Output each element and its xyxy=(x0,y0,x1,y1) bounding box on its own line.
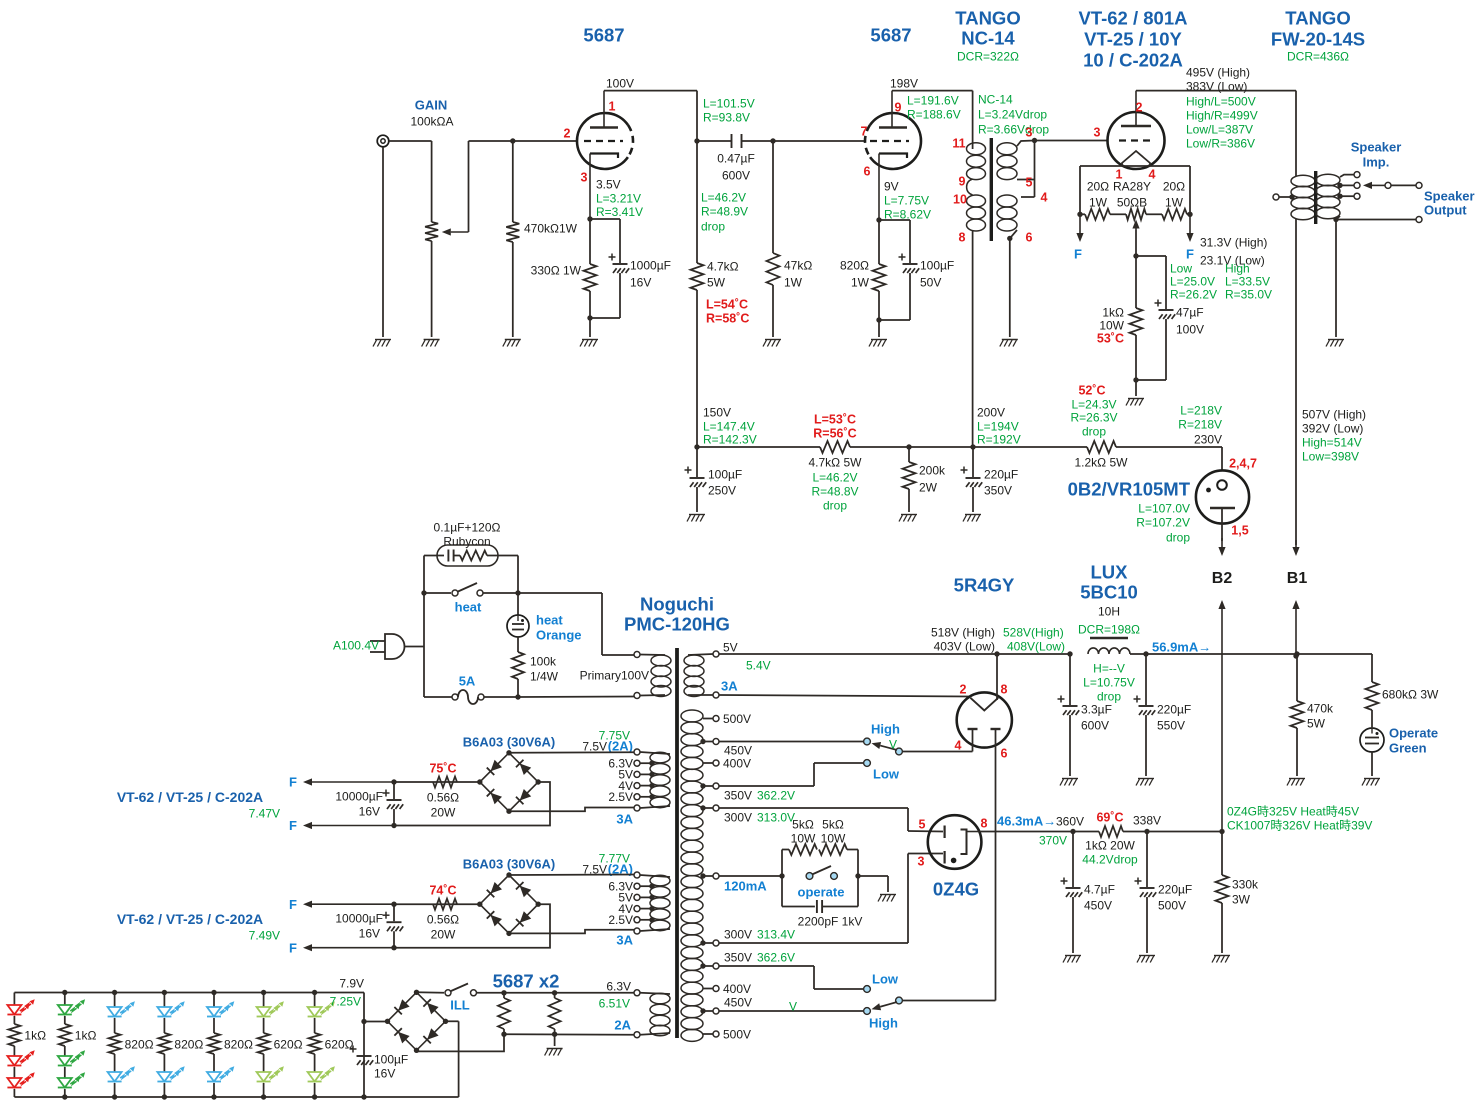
resistor 5687 heater 2 xyxy=(549,998,561,1029)
svg-text:5kΩ: 5kΩ xyxy=(792,817,814,831)
svg-text:6: 6 xyxy=(1001,747,1008,761)
ground 47k xyxy=(765,339,781,341)
svg-text:0.47µF: 0.47µF xyxy=(717,151,755,165)
tap 350V at y786 xyxy=(703,785,713,787)
LED column 1kΩ at x14 xyxy=(13,993,15,1006)
wire pin8 lead xyxy=(996,654,998,700)
wire NC-14 pin5-pin4 link xyxy=(1017,179,1035,181)
svg-text:10W: 10W xyxy=(821,831,846,845)
wire ILL bridge right to bottom bus xyxy=(446,1020,459,1022)
tube U3 plate xyxy=(1121,125,1151,127)
svg-text:Orange: Orange xyxy=(536,628,582,643)
svg-text:4: 4 xyxy=(955,739,962,753)
svg-text:5BC10: 5BC10 xyxy=(1080,582,1138,603)
wire NC-14 pin3 lead xyxy=(1017,141,1035,147)
svg-text:1.2kΩ 5W: 1.2kΩ 5W xyxy=(1075,455,1129,469)
svg-text:L=54˚C: L=54˚C xyxy=(706,298,748,312)
wire 2A heater rail xyxy=(504,1033,634,1036)
tube U3 filament xyxy=(1122,151,1150,166)
svg-text:Green: Green xyxy=(1389,741,1427,756)
svg-text:3A: 3A xyxy=(616,812,633,827)
svg-text:47kΩ: 47kΩ xyxy=(784,258,812,272)
tube U2 5687 envelope xyxy=(870,113,921,169)
wire 350V to Low upper xyxy=(719,785,814,787)
svg-text:47µF: 47µF xyxy=(1176,305,1204,319)
svg-text:6.3V: 6.3V xyxy=(606,979,631,993)
svg-text:10H: 10H xyxy=(1098,604,1120,618)
wire grid 1 xyxy=(469,140,578,142)
arrow F out top 2 xyxy=(312,903,394,905)
svg-text:5687: 5687 xyxy=(583,25,624,46)
svg-text:100µF: 100µF xyxy=(920,258,954,272)
svg-text:High: High xyxy=(871,722,900,737)
svg-text:5687 x2: 5687 x2 xyxy=(493,971,560,992)
capacitor 10000uF 16V no.2 xyxy=(391,902,396,907)
svg-text:16V: 16V xyxy=(359,927,380,941)
resistor 4.7kOhm 5W plate feed xyxy=(691,263,704,290)
svg-text:3A: 3A xyxy=(721,679,738,694)
svg-text:220µF: 220µF xyxy=(984,467,1018,481)
ground cathode1 xyxy=(582,339,598,341)
svg-text:360V: 360V xyxy=(1056,814,1084,828)
svg-text:VT-62 / VT-25 / C-202A: VT-62 / VT-25 / C-202A xyxy=(117,789,263,805)
svg-text:Low: Low xyxy=(873,767,900,782)
svg-text:0B2/VR105MT: 0B2/VR105MT xyxy=(1068,479,1191,500)
svg-text:620Ω: 620Ω xyxy=(325,1037,354,1051)
resistor 100k 1/4W xyxy=(517,637,519,652)
arrow B1 down xyxy=(1295,540,1297,547)
tap 400V at y988 xyxy=(703,988,713,990)
capacitor 10000uF 16V no.1 xyxy=(391,779,396,784)
svg-text:100k: 100k xyxy=(530,654,557,668)
svg-text:10 / C-202A: 10 / C-202A xyxy=(1083,50,1183,71)
resistor 47kOhm 1W grid leak 2 xyxy=(772,141,774,253)
resistor 470k 5W bleeder xyxy=(1296,654,1298,701)
node grid2 junction xyxy=(770,138,775,143)
svg-text:31.3V (High): 31.3V (High) xyxy=(1200,235,1267,249)
tube U5 plates xyxy=(968,728,978,730)
svg-text:500V: 500V xyxy=(1158,898,1186,912)
svg-text:470k: 470k xyxy=(1307,701,1334,715)
svg-text:L=24.3V: L=24.3V xyxy=(1071,397,1116,411)
svg-text:NC-14: NC-14 xyxy=(961,28,1015,49)
wire lamp to ground xyxy=(1371,752,1373,776)
svg-text:450V: 450V xyxy=(724,743,752,757)
svg-text:16V: 16V xyxy=(630,275,651,289)
svg-text:7.5V: 7.5V xyxy=(582,739,607,753)
svg-text:400V: 400V xyxy=(723,756,751,770)
svg-text:R=142.3V: R=142.3V xyxy=(703,432,757,446)
svg-text:7.9V: 7.9V xyxy=(339,976,364,990)
fuse 5A xyxy=(424,696,452,698)
svg-text:2.5V: 2.5V xyxy=(608,913,633,927)
svg-text:B6A03 (30V6A): B6A03 (30V6A) xyxy=(463,857,556,872)
svg-text:L=25.0V: L=25.0V xyxy=(1170,274,1215,288)
svg-text:5: 5 xyxy=(1026,176,1033,190)
tube U1 grid xyxy=(584,140,623,142)
svg-text:A100.4V: A100.4V xyxy=(333,638,379,652)
svg-text:383V (Low): 383V (Low) xyxy=(1186,79,1247,93)
switch ILL xyxy=(417,991,445,994)
switch heat xyxy=(424,592,451,594)
svg-text:L=53˚C: L=53˚C xyxy=(814,413,856,427)
ground 220uF xyxy=(965,514,981,516)
svg-text:820Ω: 820Ω xyxy=(224,1037,253,1051)
svg-text:drop: drop xyxy=(823,498,847,512)
input jack J1 xyxy=(377,135,389,147)
tube U4 cathode bar xyxy=(1210,507,1235,509)
svg-text:Imp.: Imp. xyxy=(1363,155,1390,170)
svg-text:H=--V: H=--V xyxy=(1093,661,1125,675)
svg-text:507V (High): 507V (High) xyxy=(1302,407,1366,421)
heater winding at y875 xyxy=(650,875,670,886)
svg-text:Low/R=386V: Low/R=386V xyxy=(1186,136,1255,150)
svg-text:200V: 200V xyxy=(977,405,1005,419)
tube U6 0Z4G envelope xyxy=(928,815,982,869)
svg-text:F: F xyxy=(1186,247,1194,262)
ground lamp xyxy=(1364,778,1380,780)
svg-text:7.49V: 7.49V xyxy=(249,929,280,943)
tube U4 dot xyxy=(1206,488,1211,493)
svg-text:5A: 5A xyxy=(459,674,476,689)
svg-text:High=514V: High=514V xyxy=(1302,435,1362,449)
ground 100uF xyxy=(689,514,705,516)
wire sec tap3 xyxy=(1337,194,1342,199)
svg-text:2200pF 1kV: 2200pF 1kV xyxy=(798,914,863,928)
svg-text:150V: 150V xyxy=(703,405,731,419)
wire sec ground lead xyxy=(1335,220,1337,338)
transformer T1 secondary upper xyxy=(997,143,1017,155)
svg-text:NC-14: NC-14 xyxy=(978,92,1013,106)
svg-text:338V: 338V xyxy=(1133,813,1161,827)
svg-text:2W: 2W xyxy=(919,480,938,494)
wire operate to ground xyxy=(855,873,860,878)
svg-text:200k: 200k xyxy=(919,463,946,477)
tube U4 0B2 envelope xyxy=(1196,470,1249,523)
tube U4 anode circle xyxy=(1217,480,1227,490)
svg-text:L=46.2V: L=46.2V xyxy=(812,470,857,484)
resistor 330Ohm 1W cathode xyxy=(584,264,597,291)
svg-text:5.4V: 5.4V xyxy=(746,658,771,672)
LED column 820Ω at x214 xyxy=(213,993,215,1008)
tap 500V at y1034 xyxy=(703,1033,713,1035)
svg-text:R=107.2V: R=107.2V xyxy=(1136,515,1190,529)
heater winding at y752 xyxy=(650,752,670,763)
resistor 20Ohm 1W right xyxy=(1162,209,1187,220)
svg-text:L=33.5V: L=33.5V xyxy=(1225,274,1270,288)
svg-text:1000µF: 1000µF xyxy=(630,258,671,272)
arrow F right xyxy=(1189,214,1191,233)
wire bridge1 AC top xyxy=(509,751,634,754)
wire LED bottom bus xyxy=(14,1096,458,1098)
switch V select upper xyxy=(719,741,863,743)
node fil right xyxy=(1187,212,1192,217)
svg-text:10W: 10W xyxy=(1099,318,1124,332)
svg-text:drop: drop xyxy=(701,219,725,233)
svg-text:F: F xyxy=(289,818,297,833)
svg-text:1W: 1W xyxy=(851,275,870,289)
wire NC-14 primary leads xyxy=(972,143,974,149)
svg-text:VT-62 / VT-25 / C-202A: VT-62 / VT-25 / C-202A xyxy=(117,911,263,927)
choke LUX 5BC10 xyxy=(1067,651,1072,656)
svg-text:DCR=198Ω: DCR=198Ω xyxy=(1078,622,1140,636)
svg-text:820Ω: 820Ω xyxy=(125,1037,154,1051)
wire to primary top xyxy=(518,592,602,594)
tube U5 5R4GY envelope xyxy=(957,692,1012,747)
svg-text:403V (Low): 403V (Low) xyxy=(934,639,995,653)
svg-text:5: 5 xyxy=(919,818,926,832)
wire sec bottom xyxy=(1336,216,1340,220)
resistor 820Ohm 1W cathode 2 xyxy=(878,220,880,264)
wire ILL bridge bottom to 2A rail xyxy=(417,1034,505,1051)
tap 450V at y1011 xyxy=(703,1010,713,1012)
wire 350V to Low lower xyxy=(719,965,814,967)
capacitor 1000uF 16V xyxy=(590,218,620,220)
arrow B1 up from supply xyxy=(1295,609,1297,656)
svg-text:52˚C: 52˚C xyxy=(1078,384,1105,398)
neon lamp Operate Green xyxy=(1360,728,1384,752)
heater winding 6.3V 2A xyxy=(650,993,670,1004)
ground 200k xyxy=(901,514,917,516)
wire bridge2 DC minus xyxy=(394,904,550,948)
resistor 470kOhm1W grid leak xyxy=(512,141,514,222)
svg-text:Low=398V: Low=398V xyxy=(1302,449,1359,463)
wire bridge2 AC top xyxy=(509,874,634,877)
svg-text:Primary100V: Primary100V xyxy=(580,668,649,682)
ground 330k xyxy=(1214,955,1230,957)
svg-text:TANGO: TANGO xyxy=(1285,8,1350,29)
svg-text:1kΩ: 1kΩ xyxy=(24,1028,46,1042)
wire bridge1 DC minus xyxy=(394,782,550,826)
capacitor 3.3uF 600V xyxy=(1069,654,1071,705)
svg-text:1: 1 xyxy=(609,100,616,114)
svg-text:100V: 100V xyxy=(1176,322,1204,336)
svg-text:High: High xyxy=(1225,261,1250,275)
svg-text:5R4GY: 5R4GY xyxy=(954,575,1015,596)
svg-text:620Ω: 620Ω xyxy=(274,1037,303,1051)
svg-text:3.3µF: 3.3µF xyxy=(1081,702,1112,716)
svg-text:4.7µF: 4.7µF xyxy=(1084,882,1115,896)
svg-text:11: 11 xyxy=(952,137,965,151)
tap 450V at y741 xyxy=(703,741,713,743)
svg-text:230V: 230V xyxy=(1194,432,1222,446)
node rail left xyxy=(694,444,699,449)
svg-text:High/R=499V: High/R=499V xyxy=(1186,108,1258,122)
tap 300V at y943 xyxy=(703,942,713,944)
svg-text:10000µF: 10000µF xyxy=(335,789,383,803)
svg-text:TANGO: TANGO xyxy=(955,8,1020,29)
transformer T2 primary tap xyxy=(1273,194,1279,200)
svg-text:2.5V: 2.5V xyxy=(608,790,633,804)
tap 500V at y718 xyxy=(703,718,713,720)
svg-text:2: 2 xyxy=(564,127,571,141)
svg-text:heat: heat xyxy=(536,613,563,628)
ground 220uF 550V xyxy=(1138,778,1154,780)
svg-text:V: V xyxy=(889,737,897,751)
node rail 220uF xyxy=(970,444,975,449)
svg-text:B6A03 (30V6A): B6A03 (30V6A) xyxy=(463,734,556,749)
svg-text:100kΩA: 100kΩA xyxy=(411,114,454,128)
svg-text:16V: 16V xyxy=(374,1066,395,1080)
svg-text:1W: 1W xyxy=(1165,195,1184,209)
ground NC-14 secondary xyxy=(1002,339,1018,341)
svg-text:450V: 450V xyxy=(724,995,752,1009)
svg-text:3: 3 xyxy=(1094,126,1101,140)
svg-text:RA28Y: RA28Y xyxy=(1113,179,1151,193)
wire plate VT62 to OPT xyxy=(1136,90,1296,92)
svg-text:DCR=436Ω: DCR=436Ω xyxy=(1287,49,1349,63)
ground 220uF 500V xyxy=(1139,955,1155,957)
svg-text:R=218V: R=218V xyxy=(1178,417,1222,431)
svg-text:3W: 3W xyxy=(1232,892,1251,906)
svg-text:100V: 100V xyxy=(606,76,634,90)
wire sec tap2 xyxy=(1337,183,1342,188)
resistor 1kOhm 20W xyxy=(1099,826,1123,837)
svg-text:F: F xyxy=(289,897,297,912)
svg-text:VT-62 / 801A: VT-62 / 801A xyxy=(1078,8,1187,29)
LED column 820Ω at x164 xyxy=(163,993,165,1008)
tube U5 filament xyxy=(970,698,998,711)
node cathode2 xyxy=(876,217,881,222)
svg-text:L=194V: L=194V xyxy=(977,419,1019,433)
svg-text:100µF: 100µF xyxy=(374,1052,408,1066)
LED column 620Ω at x263 xyxy=(263,993,265,1008)
svg-text:VT-25 / 10Y: VT-25 / 10Y xyxy=(1084,29,1182,50)
wire plate1 to B+ riser xyxy=(604,90,697,92)
resistor 20Ohm 1W left xyxy=(1080,213,1085,215)
svg-text:0.56Ω: 0.56Ω xyxy=(427,913,459,927)
svg-text:350V: 350V xyxy=(724,788,752,802)
svg-text:DCR=322Ω: DCR=322Ω xyxy=(957,49,1019,63)
arrow 0B2 down to B2 xyxy=(1221,538,1223,547)
tap 350V at y966 xyxy=(703,965,713,967)
svg-text:1,5: 1,5 xyxy=(1231,524,1248,538)
svg-text:R=192V: R=192V xyxy=(977,432,1021,446)
svg-text:R=56˚C: R=56˚C xyxy=(813,427,856,441)
svg-text:2A: 2A xyxy=(614,1018,631,1033)
svg-text:High/L=500V: High/L=500V xyxy=(1186,94,1256,108)
resistor 1kOhm 10W cathode bias xyxy=(1135,256,1137,308)
svg-text:Low/L=387V: Low/L=387V xyxy=(1186,122,1253,136)
LED column 1kΩ at x64 xyxy=(64,993,66,1006)
arrow B2 up from supply xyxy=(1221,609,1223,832)
resistors 5kOhm 10W pair xyxy=(782,849,789,851)
ground bias xyxy=(1128,398,1144,400)
transformer T1 core xyxy=(990,138,993,241)
ground 470k xyxy=(505,339,521,341)
wire 300V lower to 0Z4G pin3 xyxy=(719,942,908,944)
node fil left xyxy=(1077,212,1082,217)
wire LED top bus 7.9V xyxy=(14,992,364,994)
AC plug xyxy=(370,640,385,642)
svg-text:10W: 10W xyxy=(791,831,816,845)
capacitor 220uF 550V xyxy=(1145,654,1147,705)
svg-text:46.3mA→: 46.3mA→ xyxy=(997,814,1056,829)
svg-text:362.6V: 362.6V xyxy=(757,950,795,964)
svg-text:L=191.6V: L=191.6V xyxy=(907,93,959,107)
wire wiper riser xyxy=(468,141,470,232)
svg-text:heat: heat xyxy=(455,600,482,615)
svg-text:6: 6 xyxy=(864,165,871,179)
svg-text:L=3.21V: L=3.21V xyxy=(596,191,641,205)
tube U1 5687 envelope xyxy=(577,113,628,169)
capacitor 220uF 500V xyxy=(1146,832,1148,888)
svg-text:F: F xyxy=(289,940,297,955)
resistor 200k 2W bleeder xyxy=(908,447,910,462)
svg-text:4: 4 xyxy=(1041,191,1048,205)
LED column 620Ω at x314 xyxy=(314,993,316,1008)
svg-text:820Ω: 820Ω xyxy=(840,258,869,272)
wire jack to pot top xyxy=(389,140,432,142)
svg-text:10: 10 xyxy=(953,193,967,207)
wire plate2 to NC-14 xyxy=(892,90,973,92)
svg-text:R=26.3V: R=26.3V xyxy=(1070,410,1117,424)
svg-text:drop: drop xyxy=(1166,530,1190,544)
svg-text:R=3.66Vdrop: R=3.66Vdrop xyxy=(978,122,1049,136)
svg-text:R=188.6V: R=188.6V xyxy=(907,107,961,121)
svg-text:1kΩ: 1kΩ xyxy=(1102,305,1124,319)
svg-text:7: 7 xyxy=(861,125,868,139)
node pin3 xyxy=(1032,138,1037,143)
svg-text:8: 8 xyxy=(1001,683,1008,697)
node cathode2 bottom xyxy=(876,317,881,322)
capacitor 47uF 100V xyxy=(1136,255,1166,257)
tube U3 VT-62 envelope xyxy=(1108,112,1165,169)
ground pot xyxy=(424,339,440,341)
pot RA28Y wiper xyxy=(1135,229,1137,231)
svg-text:300V: 300V xyxy=(724,927,752,941)
svg-text:44.2Vdrop: 44.2Vdrop xyxy=(1082,852,1138,866)
svg-text:R=48.8V: R=48.8V xyxy=(811,484,858,498)
svg-text:R=26.2V: R=26.2V xyxy=(1170,287,1217,301)
svg-text:20Ω: 20Ω xyxy=(1163,179,1185,193)
svg-text:8: 8 xyxy=(981,817,988,831)
capacitor 100uF 250V xyxy=(696,447,698,477)
wire LED bus corner down xyxy=(363,993,365,1098)
svg-text:R=48.9V: R=48.9V xyxy=(701,204,748,218)
switch V select lower xyxy=(719,1010,863,1012)
svg-text:LUX: LUX xyxy=(1091,562,1129,583)
svg-text:L=101.5V: L=101.5V xyxy=(703,96,755,110)
tube U1 plate xyxy=(590,126,618,128)
svg-text:75˚C: 75˚C xyxy=(429,762,456,776)
svg-text:L=218V: L=218V xyxy=(1180,403,1222,417)
ground 4.7uF xyxy=(1065,955,1081,957)
svg-text:330Ω 1W: 330Ω 1W xyxy=(531,263,582,277)
svg-text:50V: 50V xyxy=(920,275,941,289)
tube U2 plate xyxy=(879,126,907,128)
svg-text:20W: 20W xyxy=(431,805,456,819)
tap 300V at y808 xyxy=(703,807,713,809)
wire B+ rail xyxy=(697,446,820,448)
wire 0Z4G output xyxy=(981,831,1073,833)
potentiometer 100kA xyxy=(431,141,433,222)
svg-text:Low: Low xyxy=(872,972,899,987)
svg-text:0.56Ω: 0.56Ω xyxy=(427,790,459,804)
tube U3 grid xyxy=(1119,139,1153,141)
svg-text:3.5V: 3.5V xyxy=(596,177,621,191)
svg-text:4.7kΩ 5W: 4.7kΩ 5W xyxy=(809,455,863,469)
snubber 0.1uF+120Ohm Rubycon xyxy=(437,545,498,566)
svg-text:408V(Low): 408V(Low) xyxy=(1007,639,1065,653)
wire pin6 lead xyxy=(995,729,997,1001)
svg-text:L=107.0V: L=107.0V xyxy=(1138,501,1190,515)
svg-text:5W: 5W xyxy=(1307,716,1326,730)
transformer T3 HV winding xyxy=(681,710,703,722)
capacitor 2200pF 1kV xyxy=(782,906,815,908)
node cathode1 bottom xyxy=(587,315,592,320)
wire bridge2 AC bottom xyxy=(509,930,634,934)
